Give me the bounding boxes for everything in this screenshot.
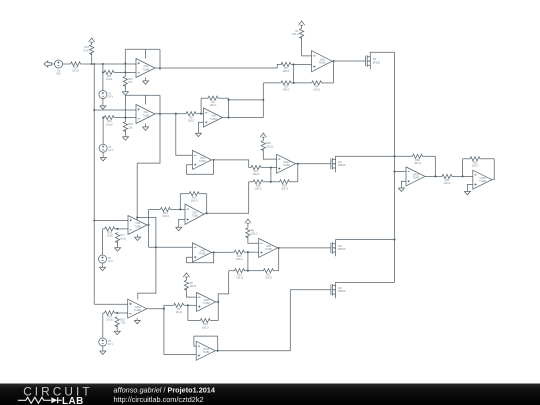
wire V5 to ground [102,346,104,349]
junction OA11 output [217,301,219,303]
junction OA2 output [159,113,161,115]
voltage source V4 [99,255,107,263]
ground V3 [100,156,106,161]
wire input bus vertical [93,64,95,304]
wire OA2 V- stub [145,124,147,126]
wire OA2 output row [155,113,186,115]
power VCC arrow OA13 [260,133,266,139]
ground OA3 [195,132,201,137]
wire V5 riser [102,313,104,338]
voltage source V3 [99,144,107,152]
wire V2 to ground [102,99,104,105]
junction OA3 output [227,117,229,119]
wire V4 riser [102,229,104,255]
wire minus row stage4 [117,312,128,314]
resistor R8 OA3 feedback [201,97,208,99]
wire OA3 plus to gnd [198,122,203,131]
wire OA10out to R23 [163,305,165,308]
junction OA8 feed tee [155,246,157,248]
resistor R7 to OA3 [196,113,201,115]
power VCC arrow OA5 [299,21,305,27]
resistor R27 to OA13 [249,167,251,169]
wire into OA11 plus [188,304,197,306]
junction OA1 output [159,67,161,69]
wire OA6 V- stub [137,235,139,236]
resistor R19 sum left [229,270,235,272]
op-amp OA12 [196,341,215,360]
wire S3 V+ stub [136,218,138,221]
op-amp OA6 [128,216,147,235]
svg-text:100 Ω: 100 Ω [292,33,299,36]
resistor R24 OA11 [184,280,188,290]
resistor R22 stage4 [115,317,119,327]
ground OA7 [176,226,182,231]
wire OA15 out stub [492,179,494,181]
transistor M4 [330,159,332,170]
junction OA2out split [175,113,177,115]
wire to OA7 resistor [149,208,161,210]
junction OA7 output [206,212,208,214]
resistor R32 OA15 feedback [463,158,470,160]
svg-text:TL081: TL081 [265,248,273,251]
svg-text:8 kΩ: 8 kΩ [121,237,126,240]
op-amp OA13 [277,154,296,173]
wire VCC to R26 [262,139,264,141]
wire R24 to OA11 minus [186,289,196,298]
junction bus stage3 [93,219,95,221]
svg-text:TL081: TL081 [134,225,142,228]
wire minus row stage1 [125,71,136,73]
junction loop/riser [262,99,264,101]
wire OA7 fb right riser [206,194,208,214]
junction OA8 output [213,251,215,253]
wire V1 to R1 [63,63,65,65]
svg-text:TL081: TL081 [191,215,199,218]
svg-text:100 Ω: 100 Ω [210,104,217,107]
wire OA13 plus riser [270,168,272,182]
wire into OA15 minus [463,175,473,177]
wire fb right riser [297,164,299,182]
wire OA4out to R27 [214,160,249,168]
wire OA1 V- stub [145,78,147,80]
svg-text:100 Ω: 100 Ω [265,276,272,279]
wire M2 drain [336,240,395,244]
svg-text:100 Ω: 100 Ω [189,285,196,288]
resistor R6 stage2 [123,122,127,132]
op-amp OA14 [406,167,425,186]
wire fb right drop [434,156,436,176]
op-amp OA1 [136,59,155,78]
wire input line stage3 [94,220,128,222]
wire long route down [137,114,160,218]
wire OA8 fb loop [187,252,214,262]
wire OA1 V+ stub [145,49,147,58]
svg-text:affonso.gabriel / Projeto1.201: affonso.gabriel / Projeto1.2014 [114,386,216,395]
svg-text:100 Ω: 100 Ω [202,326,209,329]
svg-text:BF510: BF510 [338,164,346,167]
junction OA4 output [212,159,214,161]
wire M1 source stub [369,65,371,69]
wire OA15 fb right riser [493,159,495,180]
wire M1 drain [370,52,394,57]
junction OA9 plus node [247,251,249,253]
resistor R30 OA14 feedback [395,155,413,157]
voltage source V5 [99,338,107,346]
junction OA3 loop top [227,99,229,101]
resistor R15 to OA7 [170,208,180,210]
junction S3 V+ tee [136,216,138,218]
wire OA11 fb left riser [187,305,189,320]
resistor R28 fb left [249,181,253,183]
wire VCC to R12 [301,27,303,28]
resistor R16 OA7 feedback [180,193,189,195]
svg-text:TL081: TL081 [134,309,142,312]
wire OA5 out to M1 gate [332,60,365,62]
wire OA2 fb left riser [124,95,126,121]
junction bus to OA14 minus [393,171,395,173]
svg-text:100 Ω: 100 Ω [253,173,260,176]
resistor R26 OA13 [261,141,265,151]
svg-text:100 Ω: 100 Ω [236,258,243,261]
junction OA6 output [148,224,150,226]
junction R3/R4 node [124,71,126,73]
wire OA3 out to riser [223,117,264,119]
resistor R1 [65,63,71,65]
transistor M3 [330,285,332,296]
voltage source V1 [55,60,63,68]
wire OA1 fb left riser [124,49,126,76]
ground V4 [99,266,105,271]
wire bus to OA14 minus [395,171,407,173]
wire OA12 out run [215,290,331,351]
svg-text:10 kΩ: 10 kΩ [106,123,113,126]
wire into OA7 minus [180,208,185,210]
svg-text:10 kΩ: 10 kΩ [106,235,113,238]
logo resistor symbol [18,397,51,403]
wire R12 to OA5 minus [302,37,312,56]
resistor R3 stage1 [103,71,104,73]
svg-text:TL081: TL081 [203,351,211,354]
power VCC arrow OA11 [183,273,189,279]
wire V4 to ground [102,263,104,266]
svg-text:100 Ω: 100 Ω [283,89,290,92]
resistor R4 stage1 [123,76,127,86]
power VCC arrow OA9 [245,219,251,225]
wire OA11 fb down [217,302,219,321]
svg-text:10 kΩ: 10 kΩ [72,70,79,73]
junction R5/R6 node [124,117,126,119]
junction OA12 output [217,350,219,352]
wire M3 drain [336,282,395,285]
junction V2 riser on input [102,63,104,65]
wire VCC to R18 [247,225,249,228]
junction V2/R3 node [102,71,104,73]
wire OA15 fb left riser [462,159,464,177]
wire OA14 out [425,175,437,177]
wire OA4 fb loop [187,160,214,174]
wire OA5 fb riser [333,61,335,83]
resistor R25 OA11 feedback [188,320,200,322]
wire OA7 fb left riser [179,194,181,210]
wire OA1 fb right riser [159,49,161,68]
svg-text:TL081: TL081 [142,68,150,71]
svg-text:100 Ω: 100 Ω [313,89,320,92]
resistor R18 OA9 [246,228,250,238]
wire minus row stage2 [125,117,136,119]
op-amp OA4 [193,150,212,169]
wire V2 riser [102,64,104,91]
wire OA9 fb riser [278,248,280,271]
resistor R12 OA5 [300,28,304,38]
wire drain bus [394,52,396,282]
wire OA10 V- stub [136,317,138,320]
wire OA3 up loop [229,99,264,101]
svg-text:100 Ω: 100 Ω [162,215,169,218]
wire OA1 output run [155,64,282,68]
wire OA8 input row [149,246,193,248]
wire OA14 plus to gnd [401,181,406,186]
svg-text:100 Ω: 100 Ω [283,70,290,73]
wire R26 to OA13 minus [263,149,276,159]
svg-text:100 Ω: 100 Ω [188,119,195,122]
wire sum into OA5 plus [294,64,312,66]
wire OA7 plus to gnd [179,219,185,225]
svg-text:100 Ω: 100 Ω [281,188,288,191]
junction M2 drain on bus [393,239,395,241]
wire sum node vertical [293,64,295,83]
ground R22 [114,330,120,335]
wire OA12 fb loop [194,336,218,351]
junction sum row [247,270,249,272]
resistor R14 stage3 [115,233,119,243]
op-amp OA9 [259,238,278,257]
wire OA2 V+ stub [145,95,147,104]
junction OA13 output [297,163,299,165]
op-amp OA11 [197,292,216,311]
voltage source V2 [99,91,107,99]
op-amp OA10 [128,299,147,318]
ground V2 [100,104,106,109]
wire input line to OA1 [94,63,136,65]
op-amp OA3 [204,108,223,127]
op-amp OA7 [185,204,204,225]
junction OA15 minus node [462,175,464,177]
resistor R31 series [435,175,442,177]
wire OA6 out riser [148,209,150,247]
ground OA14 [398,186,404,191]
junction OA7 minus node [179,208,181,210]
svg-text:100 Ω: 100 Ω [472,165,479,168]
junction input/bus [93,63,95,65]
resistor R9 sum top [280,63,283,65]
wire sum left riser [218,271,229,302]
junction fb riser on input [124,63,126,65]
wire OA10 output [147,308,164,310]
resistor R13 stage3 [103,228,105,230]
ground R14 [114,246,120,251]
resistor R11 OA5 feedback [294,82,312,84]
wire OA8 out stub [212,251,235,253]
wire OA13 out to M4 gate [296,163,331,165]
svg-text:10 V: 10 V [108,149,113,152]
wire into OA9 plus [248,251,259,253]
svg-text:TL081: TL081 [283,164,291,167]
svg-text:10 kΩ: 10 kΩ [106,78,113,81]
svg-text:10 V: 10 V [108,343,113,346]
svg-text:http://circuitlab.com/cztd2k2: http://circuitlab.com/cztd2k2 [114,395,204,404]
junction M4 drain on bus [393,155,395,157]
svg-text:100 Ω: 100 Ω [414,162,421,165]
resistor R5 stage2 [103,117,104,119]
ground OA2 [142,125,148,130]
ground R6 [122,135,128,140]
wire input line stage4 [94,303,128,305]
svg-text:7 kΩ: 7 kΩ [120,321,125,324]
transistor M1 [365,56,367,67]
svg-text:TL081: TL081 [479,180,487,183]
resistor R21 stage4 [103,312,105,314]
resistor R17 OA8 out [244,251,248,253]
op-amp OA2 [136,105,155,124]
wire R4 to ground [124,85,126,90]
svg-text:10 V: 10 V [108,95,113,98]
wire OA9 out to M2 gate [278,247,331,249]
wire M2 source stub [335,252,337,256]
svg-text:100 Ω: 100 Ω [444,182,451,185]
svg-text:100 Ω: 100 Ω [191,199,198,202]
svg-text:10 V: 10 V [108,260,113,263]
wire VCC to R24 [185,279,187,280]
resistor R20 sum right [248,270,264,272]
wire R14 to ground [117,241,119,246]
wire summing riser [262,83,264,118]
svg-text:TL081: TL081 [203,302,211,305]
svg-text:10 kΩ: 10 kΩ [106,319,113,322]
svg-text:BF510: BF510 [338,248,346,251]
ground OA15 [464,190,470,195]
svg-text:100 Ω: 100 Ω [266,145,273,148]
junction sum lower node [293,82,295,84]
wire port to V1 [51,63,54,65]
wire into OA13 plus [271,167,277,169]
ground R4 [122,90,128,95]
input port IN1 [44,61,52,67]
svg-text:BF510: BF510 [373,61,381,64]
junction R21/R22 node [116,312,118,314]
wire M4 source stub [335,168,337,172]
junction OA13 plus node [270,166,272,168]
wire V3 riser [102,118,104,145]
logo diode symbol [51,397,57,403]
wire route right [137,218,156,300]
junction sum plus node [293,63,295,65]
ground OA1 [142,79,148,84]
wire R2 to input node [91,53,93,64]
power VCC arrow stage1 [89,38,95,44]
junction OA5 output [332,60,334,62]
wire M4 drain [336,156,395,159]
wire OA3 fb left riser [200,98,202,114]
resistor R2 pullup [90,45,94,55]
wire M3 source stub [335,294,337,298]
wire R18 to OA9 minus [248,236,259,243]
svg-text:TL081: TL081 [412,177,420,180]
wire VCC to R2 [91,43,93,46]
wire OA2 fb right riser [159,95,161,114]
wire OA10out to OA12 [164,309,196,355]
svg-text:100 Ω: 100 Ω [251,233,258,236]
junction OA9 output [278,247,280,249]
wire OA7 out run [204,182,249,214]
op-amp OA8 [193,243,212,262]
ground V5 [100,349,106,354]
svg-text:BF510: BF510 [338,290,346,293]
svg-text:TL081: TL081 [210,118,218,121]
wire minus row stage3 [118,228,129,230]
junction OA13 fb node [270,181,272,183]
ground OA6 [134,236,140,241]
svg-text:100 Ω: 100 Ω [255,188,262,191]
svg-text:9 kΩ: 9 kΩ [84,49,89,52]
junction R13/R14 node [116,228,118,230]
ground OA10 [134,319,140,324]
junction OA11 plus node [187,304,189,306]
junction bus stage2 [93,109,95,111]
junction V3/R5 node [102,117,104,119]
wire input line stage2 [94,109,136,111]
svg-text:TL081: TL081 [142,114,150,117]
svg-text:100 Ω: 100 Ω [236,276,243,279]
junction OA14 output [434,175,436,177]
wire V3 to ground [102,152,104,156]
junction OA10 output [163,308,165,310]
svg-text:LAB: LAB [62,396,84,405]
resistor R23 to OA11 [164,304,174,306]
svg-text:SIG: SIG [56,73,60,76]
wire to OA4 input [176,114,193,156]
wire OA1 feedback top [125,48,160,50]
junction OA3 minus node [200,113,202,115]
wire OA3 fb right riser [228,98,230,117]
op-amp OA5 [312,51,333,72]
wire OA6 output stub [147,224,149,226]
wire OA11 out stub [216,301,219,303]
svg-text:100 Ω: 100 Ω [175,311,182,314]
junction input/R2 [91,63,93,65]
resistor R10 sum bottom [263,82,281,84]
transistor M2 [330,243,332,254]
wire OA2 feedback top [125,94,160,96]
wire R6 to ground [124,130,126,135]
svg-text:TL081: TL081 [199,160,207,163]
wire into OA3 minus [201,113,203,115]
wire sum node riser [247,252,249,271]
resistor R29 fb right [271,181,280,183]
svg-text:TL081: TL081 [319,62,327,65]
op-amp OA15 [473,170,492,189]
svg-text:TL081: TL081 [199,253,207,256]
wire R22 to ground [116,325,118,330]
wire OA15 plus to gnd [467,185,472,190]
